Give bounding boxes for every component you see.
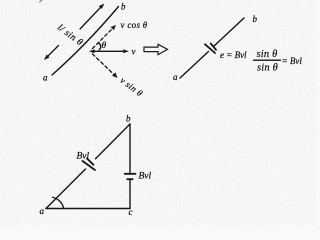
cell plate short (hypotenuse)	[87, 159, 94, 165]
svg-text:Bvl: Bvl	[77, 152, 90, 162]
svg-text:sin θ: sin θ	[257, 63, 278, 74]
svg-text:e = Bvl: e = Bvl	[220, 50, 247, 60]
cell plate short (right diagram)	[211, 43, 216, 49]
stray mark top-left	[40, 0, 43, 2]
rod ab (left diagram)	[52, 7, 119, 76]
cell plate long (vertical side)	[125, 173, 136, 175]
cell plate short (vertical side)	[127, 178, 132, 180]
fraction sin θ / sin θ	[257, 49, 279, 74]
fraction bar	[254, 59, 281, 61]
svg-text:a: a	[43, 73, 48, 83]
velocity arrow v	[89, 49, 129, 53]
svg-text:sin θ: sin θ	[257, 49, 278, 60]
dimension arrow l/sin θ	[44, 4, 104, 60]
triangle side ac	[46, 208, 130, 210]
svg-text:= Bvl: = Bvl	[282, 56, 303, 66]
angle arc θ (left diagram)	[98, 43, 100, 50]
svg-text:θ: θ	[102, 41, 107, 51]
svg-text:c: c	[129, 207, 133, 217]
svg-text:v: v	[132, 47, 136, 57]
triangle side bc upper segment	[129, 124, 131, 173]
rod ab (right diagram, lower segment)	[180, 52, 209, 79]
implication block arrow	[144, 44, 168, 54]
dashed arrow v sin θ	[93, 54, 118, 78]
hypotenuse ab upper segment	[96, 124, 131, 159]
cell plate long (hypotenuse)	[83, 161, 96, 170]
dashed arrow v cos θ	[93, 25, 117, 49]
rod ab (right diagram, upper segment)	[214, 18, 245, 47]
svg-text:b: b	[121, 2, 126, 12]
triangle side bc lower segment	[129, 180, 131, 209]
svg-text:Bvl: Bvl	[139, 172, 152, 182]
svg-text:v cos θ: v cos θ	[121, 20, 148, 30]
svg-text:a: a	[173, 72, 178, 82]
svg-text:b: b	[253, 14, 258, 24]
cell plate long (right diagram)	[205, 44, 215, 53]
angle arc at a (triangle)	[53, 197, 64, 208]
svg-text:a: a	[40, 206, 45, 216]
svg-text:b: b	[126, 114, 131, 124]
hypotenuse ab lower segment	[46, 169, 86, 209]
